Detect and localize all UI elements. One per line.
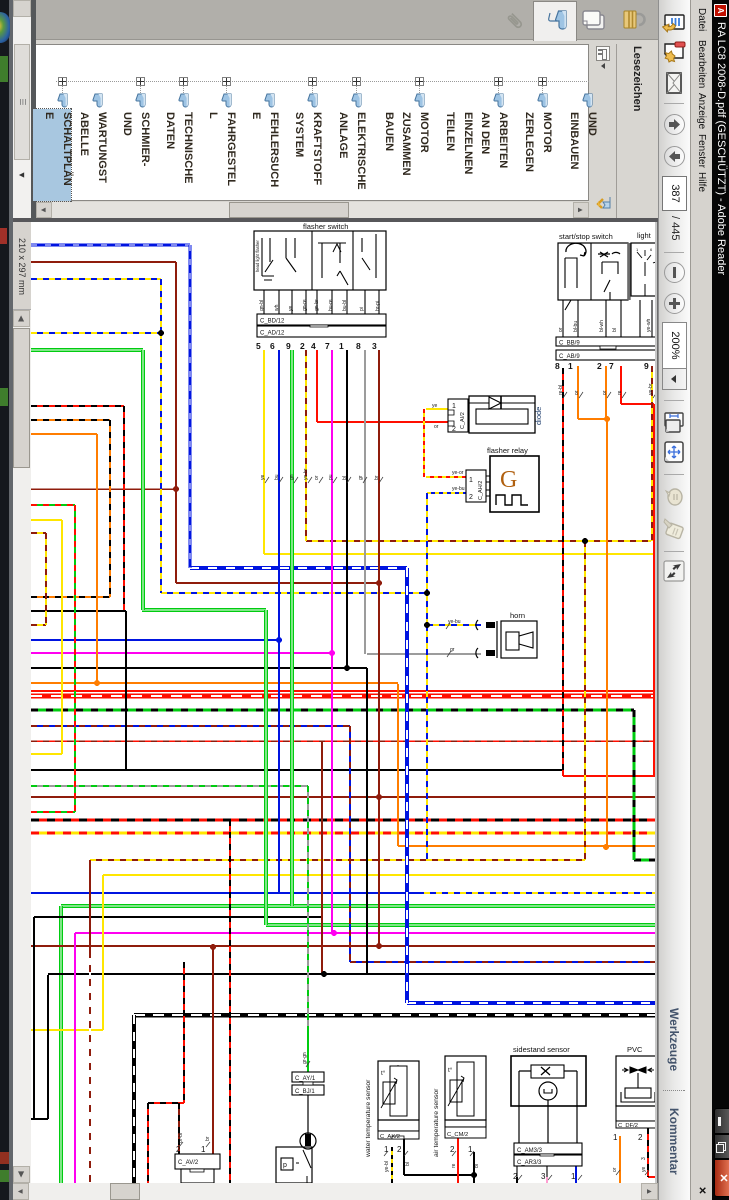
wire re-bl vertical segment x=124 bbox=[123, 406, 125, 611]
svg-text:2: 2 bbox=[638, 1133, 643, 1142]
svg-text:bl: bl bbox=[474, 1164, 480, 1168]
svg-text:bu: bu bbox=[274, 474, 280, 480]
wire gn-gr tail vertical segment x=308 bbox=[307, 1031, 309, 1072]
wire bu-br vertical segment x=350 bbox=[349, 726, 351, 962]
horn H1 bbox=[497, 611, 537, 658]
svg-text:G: G bbox=[500, 467, 517, 493]
connector C_AV/2 bbox=[175, 1145, 220, 1183]
wire ye vertical segment x=62 bbox=[61, 520, 63, 754]
wire or p1 vertical segment x=578 bbox=[577, 366, 579, 419]
wire re thin horizontal segment y=691 bbox=[31, 690, 655, 692]
svg-text:ye-br: ye-br bbox=[648, 383, 654, 395]
wire bl u-outer vertical segment x=34 bbox=[33, 917, 35, 1120]
connector C_CM/2 bbox=[445, 1127, 486, 1154]
svg-text:diode: diode bbox=[534, 407, 543, 425]
wire or p2 vertical segment x=606 bbox=[605, 366, 607, 419]
node br junction2 bbox=[376, 794, 382, 800]
svg-text:bl: bl bbox=[342, 476, 348, 480]
svg-text:flasher switch: flasher switch bbox=[303, 222, 348, 231]
wire gn-bl horizontal segment y=710 bbox=[31, 708, 634, 711]
wire bu sidestand vertical segment x=576 bbox=[575, 1166, 577, 1183]
wire or horizontal segment y=434 bbox=[31, 433, 97, 435]
svg-text:2: 2 bbox=[397, 1145, 402, 1154]
wire re p7 vertical segment x=621 bbox=[620, 366, 622, 404]
wire ye-re horizontal segment y=833 bbox=[31, 832, 655, 835]
svg-text:C_AD/12: C_AD/12 bbox=[260, 331, 285, 337]
wire bu-br horizontal segment y=726 bbox=[31, 725, 350, 727]
node br loop junction bbox=[173, 486, 179, 492]
wire or pvc vertical segment x=620 bbox=[619, 1136, 621, 1183]
wire gn p9 vertical segment x=292 bbox=[290, 350, 294, 906]
wire br-ye mid vertical segment x=585 bbox=[584, 541, 586, 860]
wire ye horizontal segment y=520 bbox=[31, 519, 62, 521]
wire gn low2 horizontal segment y=925 bbox=[266, 923, 655, 927]
doc h scrollbar row bbox=[13, 222, 31, 1183]
wire gn-bl exit horizontal segment y=860 bbox=[634, 859, 655, 862]
wire re-bl mid vertical segment x=184 bbox=[183, 962, 185, 1103]
svg-text:8: 8 bbox=[555, 361, 560, 371]
svg-text:p: p bbox=[283, 1162, 287, 1169]
svg-text:C_AB/9: C_AB/9 bbox=[559, 354, 580, 360]
wire bl-wh heavy horizontal segment y=1015 bbox=[134, 1013, 655, 1018]
svg-text:1: 1 bbox=[201, 1145, 206, 1154]
svg-text:re-bl: re-bl bbox=[558, 385, 564, 395]
tab strip icons bbox=[622, 8, 646, 32]
svg-text:air temperature sensor: air temperature sensor bbox=[433, 1088, 440, 1157]
wire gr p8 vertical segment x=365 bbox=[364, 350, 366, 654]
wire br loop horizontal segment y=489 bbox=[31, 488, 176, 490]
node br junction3 bbox=[376, 943, 382, 949]
horn wire labels bbox=[446, 619, 461, 657]
wire gn-re horizontal segment y=505 bbox=[31, 504, 75, 506]
connector C_AB/9 bbox=[556, 346, 656, 360]
svg-text:or: or bbox=[602, 390, 608, 395]
svg-text:t°: t° bbox=[448, 1066, 453, 1074]
wire ye long horizontal segment y=875 bbox=[103, 874, 655, 876]
svg-text:bu-re: bu-re bbox=[328, 299, 334, 311]
node br junction4 bbox=[210, 944, 216, 950]
svg-text:sidestand sensor: sidestand sensor bbox=[513, 1045, 570, 1054]
svg-text:re: re bbox=[451, 1163, 457, 1168]
start/stop pin numbers bbox=[555, 361, 649, 371]
svg-text:2: 2 bbox=[597, 361, 602, 371]
wire ye exit horizontal segment y=754 bbox=[31, 753, 62, 755]
wire gn low1 drop vertical segment x=61 bbox=[59, 906, 63, 1183]
C_AV/2 wire labels bbox=[178, 1133, 211, 1147]
svg-text:gn-bl: gn-bl bbox=[259, 300, 265, 311]
doc white area bbox=[31, 222, 658, 1183]
svg-text:7: 7 bbox=[609, 361, 614, 371]
wire or joined vertical segment x=607 bbox=[606, 419, 608, 847]
wire bu-ye right horizontal segment y=893 bbox=[424, 892, 655, 894]
wire ye-br p9 vertical segment x=652 bbox=[651, 366, 653, 541]
air sensor wire labels bbox=[451, 1151, 480, 1168]
connector C_AH/2 bbox=[466, 470, 490, 502]
connector C_AD/12 bbox=[257, 325, 386, 337]
svg-text:gn-re: gn-re bbox=[302, 299, 308, 311]
wire bu-wh horizontal segment y=245 bbox=[31, 243, 190, 246]
start/stop wire labels bbox=[558, 318, 657, 398]
svg-text:br-pi: br-pi bbox=[375, 301, 381, 311]
switch S3 light switch bbox=[631, 231, 659, 296]
wire bl loop vertical segment x=126 bbox=[125, 611, 127, 770]
connector C_AX/2 bbox=[378, 1131, 419, 1154]
connector C_AI/2 bbox=[448, 399, 468, 433]
wire ye-bu to relay horizontal segment y=593 bbox=[161, 592, 427, 594]
wire re right edge vertical segment x=654 bbox=[653, 404, 655, 776]
wire gr-gn vertical segment x=308 bbox=[307, 786, 309, 1031]
wire ye-bl sensor vertical segment x=392 bbox=[391, 1147, 393, 1183]
svg-text:1: 1 bbox=[571, 1172, 576, 1181]
wire br horizontal segment y=262 bbox=[31, 261, 176, 263]
wire br vertical segment x=176 bbox=[175, 262, 177, 583]
svg-text:t°: t° bbox=[381, 1069, 386, 1077]
svg-text:ye-bu: ye-bu bbox=[452, 486, 465, 492]
node or junction2 bbox=[603, 844, 609, 850]
svg-text:C_BD/12: C_BD/12 bbox=[260, 319, 285, 325]
wire bl sensor link horizontal segment y=1175 bbox=[404, 1174, 474, 1176]
node br tap bbox=[376, 580, 382, 586]
svg-text:C_AH/2: C_AH/2 bbox=[478, 481, 484, 500]
svg-text:bl: bl bbox=[612, 328, 618, 332]
svg-text:gr-gn: gr-gn bbox=[302, 1052, 308, 1064]
pvc wire labels bbox=[612, 1157, 649, 1175]
wire bl sensor vertical segment x=404 bbox=[403, 1139, 405, 1175]
wire gn horizontal segment y=350 bbox=[31, 348, 143, 352]
wire br-ye right horizontal segment y=541 bbox=[306, 540, 651, 542]
svg-text:3: 3 bbox=[541, 1172, 546, 1181]
wire bl loop horizontal segment y=611 bbox=[31, 610, 126, 612]
wire bl u-inner vertical segment x=48 bbox=[47, 975, 49, 1119]
wire bu-wh vertical segment x=190 bbox=[188, 245, 191, 568]
node ye-bu junction bbox=[158, 330, 164, 336]
wire ye to C_AI horizontal segment y=409 bbox=[426, 408, 448, 410]
wire re-bl horizontal segment y=406 bbox=[31, 405, 124, 407]
wire ye bottom exit horizontal segment y=1030 bbox=[31, 1029, 103, 1031]
wire bu-wh thick horizontal segment y=568 bbox=[190, 566, 407, 570]
node br-ye junction bbox=[582, 538, 588, 544]
svg-text:C_AX/2: C_AX/2 bbox=[380, 1134, 400, 1140]
start/stop terminal stubs bbox=[563, 300, 652, 337]
sensor B1 water temperature sensor bbox=[365, 1061, 419, 1158]
wire re-bl bottom horizontal segment y=1103 bbox=[148, 1102, 184, 1104]
wire pu horizontal segment y=653 bbox=[31, 652, 332, 654]
wire bu long horizontal segment y=893 bbox=[31, 892, 424, 894]
svg-text:ye-wh: ye-wh bbox=[646, 318, 652, 332]
wire ye-or relay horizontal segment y=477 bbox=[426, 476, 466, 478]
wire re-bl drop vertical segment x=148 bbox=[147, 1103, 149, 1183]
wire re-bl pvc vertical segment x=648 bbox=[647, 1128, 649, 1177]
wire re pvc exit horizontal segment y=1177 bbox=[648, 1176, 655, 1178]
wire br drop dashed vertical segment x=90 bbox=[89, 958, 91, 1183]
wire re-bl drop2 vertical segment x=230 bbox=[229, 820, 231, 1183]
svg-text:1: 1 bbox=[613, 1133, 618, 1142]
wire gn low1 horizontal segment y=906 bbox=[61, 904, 655, 908]
nav pane bbox=[36, 0, 658, 40]
wire re-wh thick horizontal segment y=696 bbox=[31, 693, 655, 698]
wire pu p7 vertical segment x=332 bbox=[331, 350, 333, 933]
svg-text:6: 6 bbox=[650, 247, 653, 252]
wire re p4 vertical segment x=317 bbox=[316, 350, 318, 422]
svg-text:C_AI/2: C_AI/2 bbox=[460, 412, 466, 429]
svg-text:bl: bl bbox=[405, 1162, 411, 1166]
wire bu-br low horizontal segment y=962 bbox=[350, 961, 655, 963]
svg-text:2: 2 bbox=[452, 426, 456, 433]
svg-text:PVC: PVC bbox=[627, 1045, 643, 1054]
svg-text:water temperature sensor: water temperature sensor bbox=[365, 1079, 372, 1158]
wire or-bl vertical segment x=110 bbox=[109, 420, 111, 597]
wire br mid vertical segment x=322 bbox=[321, 741, 323, 974]
wire bl low horizontal segment y=974 bbox=[48, 973, 655, 975]
wire re p7 top horizontal segment y=404 bbox=[621, 403, 654, 405]
flasher switch terminal stubs bbox=[264, 290, 379, 314]
wire ye-bu relay horizontal segment y=493 bbox=[427, 492, 466, 494]
bookmark panel toolbar icons bbox=[596, 46, 610, 61]
svg-text:3: 3 bbox=[641, 1157, 647, 1160]
svg-text:C_AY/1: C_AY/1 bbox=[295, 1076, 316, 1082]
node ye-bu junction2 bbox=[424, 590, 430, 596]
svg-text:gr: gr bbox=[450, 647, 455, 653]
wire br-ye horizontal segment y=860 bbox=[90, 859, 585, 861]
wire bu-wh low horizontal segment y=1003 bbox=[407, 1001, 655, 1005]
wire ye flasher p5 horizontal segment y=554 bbox=[264, 553, 655, 555]
svg-text:horn: horn bbox=[510, 611, 525, 620]
svg-text:ye-br: ye-br bbox=[303, 468, 309, 480]
wire br conn vertical segment x=213 bbox=[212, 947, 214, 1154]
wire gr-gn horizontal segment y=786 bbox=[31, 785, 308, 787]
wire gn-re exit horizontal segment y=812 bbox=[31, 811, 75, 813]
svg-text:or: or bbox=[558, 327, 564, 332]
wire ye-bu vertical segment x=161 bbox=[160, 279, 162, 593]
svg-text:wh: wh bbox=[274, 304, 280, 311]
node bl sensor junction bbox=[471, 1172, 477, 1178]
connector C_BB/9 bbox=[556, 337, 656, 347]
bookmark tree bbox=[56, 81, 589, 83]
wire or main horizontal segment y=683 bbox=[31, 682, 398, 684]
wire or drop vertical segment x=398 bbox=[397, 684, 399, 846]
connector C_AY/1 bbox=[292, 1072, 324, 1082]
svg-text:1: 1 bbox=[568, 361, 573, 371]
sensor B2 air temperature sensor bbox=[433, 1056, 486, 1157]
svg-text:light: light bbox=[637, 231, 652, 240]
nav vertical scrollbar bbox=[36, 202, 589, 218]
svg-text:C_CM/2: C_CM/2 bbox=[447, 1132, 468, 1138]
wire gn-bl drop vertical segment x=634 bbox=[633, 710, 636, 860]
relay wire labels bbox=[432, 403, 465, 492]
svg-text:2: 2 bbox=[300, 341, 305, 351]
node pu junction2 bbox=[331, 930, 337, 936]
wire bl bottom exit horizontal segment y=1119 bbox=[31, 1118, 48, 1120]
wire gn vertical segment x=143 bbox=[141, 350, 145, 610]
wire ye-br vertical segment x=46 bbox=[45, 533, 47, 625]
wire br low horizontal segment y=946 bbox=[31, 945, 655, 947]
wire re-br horizontal segment y=741 bbox=[31, 740, 655, 742]
svg-text:head light flasher: head light flasher bbox=[255, 240, 260, 272]
wire ye-bu relay drop vertical segment x=427 bbox=[426, 493, 428, 860]
svg-text:or: or bbox=[574, 390, 580, 395]
wire bu-wh thick vertical segment x=407 bbox=[405, 568, 409, 1003]
wire bl u1 horizontal segment y=917 bbox=[34, 916, 322, 918]
flasher switch wire labels upper bbox=[259, 299, 381, 311]
wire re p4 horizontal segment y=422 bbox=[317, 421, 448, 423]
connector C_AR3/3 bbox=[513, 1154, 582, 1181]
relay K1 flasher relay bbox=[487, 446, 539, 512]
svg-text:1: 1 bbox=[452, 403, 456, 410]
title bar bbox=[712, 0, 729, 1200]
svg-text:bl-bu: bl-bu bbox=[573, 321, 579, 332]
svg-text:C_BJ/1: C_BJ/1 bbox=[295, 1089, 315, 1095]
wire pu drop vertical segment x=75 bbox=[74, 933, 76, 1183]
nav horizontal scrollbar bbox=[13, 0, 31, 218]
diode D1 bbox=[469, 396, 543, 433]
wire ye-bu horn horizontal segment y=625 bbox=[427, 624, 481, 626]
wire or right horizontal segment y=846 bbox=[398, 845, 655, 847]
node bl junction bbox=[344, 665, 350, 671]
node pu junction bbox=[329, 650, 335, 656]
wire or vertical segment x=97 bbox=[96, 434, 98, 683]
svg-text:5: 5 bbox=[256, 341, 261, 351]
svg-text:4: 4 bbox=[311, 341, 316, 351]
wire pu low horizontal segment y=933 bbox=[75, 932, 655, 934]
node or junction bbox=[604, 416, 610, 422]
wire bl sensor2 vertical segment x=474 bbox=[473, 1152, 475, 1183]
svg-text:2: 2 bbox=[176, 1145, 181, 1154]
wire br to p3 horizontal segment y=583 bbox=[176, 582, 379, 584]
svg-text:gn: gn bbox=[289, 474, 295, 480]
switch S2 start/stop switch bbox=[558, 232, 628, 310]
wire gn link horizontal segment y=610 bbox=[142, 608, 266, 612]
svg-text:ye: ye bbox=[288, 306, 294, 312]
wire re right horizontal segment y=776 bbox=[563, 775, 655, 777]
svg-text:ye-bl: ye-bl bbox=[384, 1161, 390, 1172]
svg-text:or: or bbox=[612, 1167, 618, 1172]
svg-text:pi: pi bbox=[359, 307, 365, 311]
svg-text:ye: ye bbox=[641, 1167, 647, 1173]
cable sheath bar bbox=[627, 243, 630, 300]
svg-text:ye-bu: ye-bu bbox=[448, 619, 461, 625]
wire ye p5 vertical segment x=264 bbox=[263, 350, 265, 554]
svg-text:1: 1 bbox=[339, 341, 344, 351]
svg-text:2: 2 bbox=[469, 494, 473, 501]
node bl junction2 bbox=[321, 971, 327, 977]
svg-text:or: or bbox=[314, 475, 320, 480]
connector C_BD/12 bbox=[257, 314, 386, 325]
wire bl jog vertical segment x=367 bbox=[366, 668, 368, 974]
svg-text:bl-wh: bl-wh bbox=[599, 320, 605, 332]
wire or join horizontal segment y=419 bbox=[578, 418, 607, 420]
wire bl horizontal segment y=668 bbox=[31, 667, 367, 669]
svg-text:C_DF/2: C_DF/2 bbox=[618, 1123, 638, 1129]
wire bl long horizontal segment y=770 bbox=[31, 769, 563, 771]
svg-text:C_AV/2: C_AV/2 bbox=[178, 1160, 199, 1166]
svg-text:br: br bbox=[205, 1136, 211, 1141]
svg-text:1: 1 bbox=[469, 477, 473, 484]
wire or-bl loop horizontal segment y=597 bbox=[31, 596, 110, 598]
svg-text:re: re bbox=[617, 390, 623, 395]
nav pane bottom border bbox=[31, 0, 36, 222]
connector C_DF/2 bbox=[613, 1121, 656, 1142]
node bu junction bbox=[276, 637, 282, 643]
horn terminal 2 bbox=[476, 648, 495, 658]
wire or-bl horizontal segment y=420 bbox=[31, 419, 110, 421]
switch S1 flasher switch bbox=[254, 222, 386, 290]
svg-text:3: 3 bbox=[372, 341, 377, 351]
wire br-bl conn vertical segment x=179 bbox=[178, 1103, 180, 1154]
svg-text:9: 9 bbox=[286, 341, 291, 351]
svg-text:ye: ye bbox=[260, 475, 266, 481]
wire bl p1 vertical segment x=347 bbox=[346, 350, 348, 668]
wire ye-or vertical segment x=424 bbox=[423, 409, 425, 477]
svg-text:ye-or: ye-or bbox=[452, 470, 464, 476]
connector C_BJ/1 bbox=[292, 1082, 324, 1095]
wire ye-bu horizontal segment y=279 bbox=[31, 278, 161, 280]
connector C_AM3/3 bbox=[514, 1143, 582, 1154]
wire bl-wh heavy drop vertical segment x=134 bbox=[132, 1015, 136, 1183]
node ye-bu horn tap bbox=[424, 622, 430, 628]
svg-text:7: 7 bbox=[325, 341, 330, 351]
wire gr horn horizontal segment y=654 bbox=[367, 653, 481, 655]
wire pi sidestand vertical segment x=547 bbox=[546, 1177, 548, 1183]
flasher switch wire labels lower bbox=[260, 468, 383, 483]
wire ye-br exit horizontal segment y=625 bbox=[31, 624, 46, 626]
wire ye-bu lower horizontal segment y=333 bbox=[31, 332, 161, 334]
svg-text:C_AM3/3: C_AM3/3 bbox=[517, 1148, 543, 1154]
flasher switch pin numbers bbox=[256, 341, 377, 351]
toolbar bbox=[658, 0, 690, 1200]
wire bl sidestand vertical segment x=517 bbox=[516, 1177, 518, 1183]
svg-text:gn-br: gn-br bbox=[314, 299, 320, 311]
wire br drop vertical segment x=90 bbox=[89, 860, 91, 958]
wire gn-re vertical segment x=75 bbox=[74, 505, 76, 812]
wire ye drop vertical segment x=103 bbox=[102, 875, 104, 1030]
wire bu p6 vertical segment x=279 bbox=[278, 350, 280, 893]
svg-text:or: or bbox=[434, 424, 439, 430]
wire gn link vertical segment x=266 bbox=[264, 610, 268, 925]
wire re-bl p8 vertical segment x=563 bbox=[562, 368, 564, 776]
taskbar bbox=[9, 0, 13, 1200]
svg-text:start/stop switch: start/stop switch bbox=[559, 232, 613, 241]
svg-text:9: 9 bbox=[644, 361, 649, 371]
wire gr-gn label bbox=[302, 1052, 310, 1067]
svg-text:gr: gr bbox=[358, 475, 364, 480]
svg-text:br-bl: br-bl bbox=[178, 1133, 184, 1143]
wire re sensor vertical segment x=458 bbox=[457, 1138, 459, 1183]
svg-text:bu-bl: bu-bl bbox=[342, 300, 348, 311]
horn terminal 1 bbox=[476, 620, 495, 630]
svg-text:flasher relay: flasher relay bbox=[487, 446, 528, 455]
sensor B3 sidestand sensor bbox=[511, 1045, 586, 1143]
svg-text:6: 6 bbox=[270, 341, 275, 351]
wire ye-br left stub horizontal segment y=533 bbox=[31, 532, 46, 534]
water sensor wire labels bbox=[384, 1151, 411, 1172]
menu bar bbox=[690, 0, 712, 1200]
svg-text:8: 8 bbox=[356, 341, 361, 351]
node or junction3 bbox=[94, 680, 100, 686]
valve PVC bbox=[616, 1045, 656, 1126]
svg-text:br: br bbox=[374, 475, 380, 480]
svg-text:pu: pu bbox=[328, 474, 334, 480]
wire br p3 vertical segment x=379 bbox=[378, 350, 380, 946]
sidestand stub wires bbox=[517, 1166, 582, 1180]
wire br long horizontal segment y=797 bbox=[31, 796, 655, 798]
svg-text:ye: ye bbox=[432, 403, 438, 409]
wire re-bl long horizontal segment y=820 bbox=[31, 819, 655, 822]
doc v scrollbar bbox=[12, 1183, 658, 1200]
wire bu horizontal segment y=640 bbox=[31, 639, 279, 641]
svg-text:1: 1 bbox=[636, 247, 639, 252]
svg-text:C_AR3/3: C_AR3/3 bbox=[517, 1160, 542, 1166]
oil pressure switch P1 bbox=[276, 1095, 316, 1183]
